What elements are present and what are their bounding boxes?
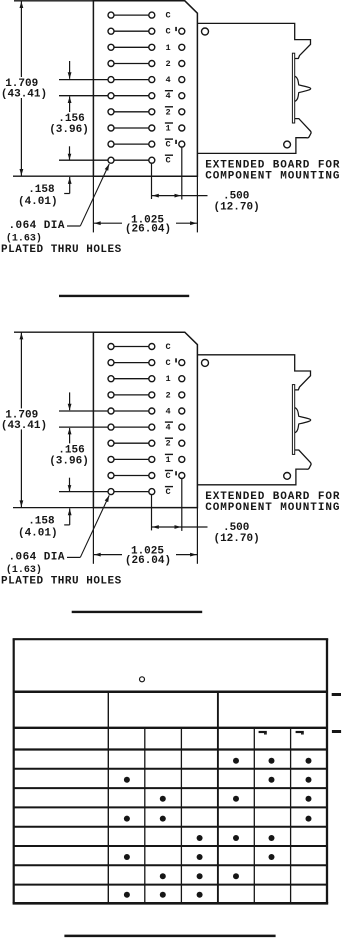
- hole row 2 right D2: [149, 360, 155, 366]
- extension line board right edge below D2: [196, 508, 198, 564]
- table dot row 5 col 4: [197, 835, 203, 841]
- svg-text:(43.41): (43.41): [1, 89, 47, 101]
- table dot row 6 col 2: [124, 854, 130, 860]
- hole row 5 third D1: [179, 77, 185, 83]
- table dot row 2 col 6: [269, 777, 275, 783]
- svg-text:(26.04): (26.04): [125, 555, 171, 567]
- extended board outline D1 (top section): [197, 23, 310, 58]
- hole row 8 left D2: [108, 456, 114, 462]
- table dot row 1 col 6: [269, 758, 275, 764]
- hole row 8 third D2: [179, 456, 185, 462]
- table dot row 8 col 4: [197, 892, 203, 898]
- table dot row 4 col 3: [160, 816, 166, 822]
- svg-text:2: 2: [166, 390, 171, 400]
- wire row 6 D2: [59, 426, 152, 428]
- svg-text:(3.96): (3.96): [49, 455, 89, 467]
- extended board outline D2 (bottom section): [197, 450, 311, 485]
- hole row 9 right D2: [149, 473, 155, 479]
- table row line 3: [14, 806, 327, 808]
- svg-text:(1.63): (1.63): [6, 233, 42, 245]
- hole row 4 left D2: [108, 392, 114, 398]
- card edge bar D2: [292, 385, 294, 455]
- svg-text:(4.01): (4.01): [18, 527, 58, 539]
- table outer border left: [13, 639, 15, 903]
- wire row 2 D2: [111, 362, 152, 364]
- svg-text:4: 4: [166, 423, 171, 433]
- table dot row 8 col 2: [124, 892, 130, 898]
- board outline D1: [93, 1, 197, 176]
- extension line board left edge below D1: [92, 176, 94, 232]
- hole row 7 right D1: [149, 109, 155, 115]
- wire row 9 D1: [111, 143, 152, 145]
- wire row 5 D1: [59, 79, 152, 81]
- table row line 1: [14, 768, 327, 770]
- hole row 6 right D1: [149, 93, 155, 99]
- svg-text:.158: .158: [28, 184, 55, 196]
- svg-text:C: C: [166, 471, 171, 481]
- table outer border bottom: [13, 902, 329, 905]
- wire row 9 D2: [111, 475, 152, 477]
- mounting hole top D2: [202, 359, 209, 366]
- svg-text:2: 2: [166, 439, 171, 449]
- hole row 6 third D2: [179, 424, 185, 430]
- hole row 8 third D1: [179, 125, 185, 131]
- hole row 4 left D1: [108, 61, 114, 67]
- hole row 7 third D1: [179, 109, 185, 115]
- svg-text:1: 1: [166, 374, 171, 384]
- table header row 2 bottom line: [14, 727, 327, 729]
- separator line 3 (bottom): [64, 935, 275, 938]
- hole row 8 right D2: [149, 456, 155, 462]
- extension line bottom edge D1: [13, 175, 93, 177]
- hole row 1 left D2: [108, 344, 114, 350]
- wire row 7 D2: [111, 442, 152, 444]
- middle contact bump D1: [295, 76, 311, 101]
- table dot row 6 col 6: [269, 854, 275, 860]
- dimension text 1.709 (43.41) D1: [3, 77, 40, 98]
- table dot row 6 col 4: [197, 854, 203, 860]
- hole row 2 right D1: [149, 28, 155, 34]
- table row line 2: [14, 787, 327, 789]
- dimension line .500 D1: [152, 195, 208, 197]
- svg-text:1: 1: [166, 124, 171, 134]
- mounting hole bottom D1: [284, 141, 291, 148]
- hole row 9 third D1: [179, 141, 185, 147]
- hole row 10 right D2: [149, 489, 155, 495]
- dimension elbow .158 D1: [69, 177, 71, 194]
- hole row 3 right D2: [149, 376, 155, 382]
- table dot row 5 col 5: [233, 835, 239, 841]
- hole row 7 third D2: [179, 440, 185, 446]
- dimension text 1.709 (43.41) D2: [3, 408, 40, 429]
- extension line third-hole column below D2: [181, 479, 183, 531]
- svg-text:2: 2: [166, 59, 171, 69]
- table dot row 2 col 2: [124, 777, 130, 783]
- hole row 1 right D1: [149, 12, 155, 18]
- svg-text:(12.70): (12.70): [213, 202, 259, 214]
- hole row 2 left D2: [108, 360, 114, 366]
- table row line 6: [14, 864, 327, 866]
- svg-text:2: 2: [166, 107, 171, 117]
- hole row 3 third D2: [179, 376, 185, 382]
- dimension arrows .156 D2: [69, 392, 71, 410]
- table dot row 1 col 7: [306, 758, 312, 764]
- wire row 5 D2: [59, 410, 152, 412]
- table dot row 7 col 3: [160, 873, 166, 879]
- hole row 10 right D1: [149, 157, 155, 163]
- hole row 7 left D2: [108, 440, 114, 446]
- svg-text:COMPONENT MOUNTING: COMPONENT MOUNTING: [205, 502, 340, 514]
- card edge bar D1: [292, 53, 294, 123]
- dimension arrow .158 upper (at row 10) D1: [69, 146, 71, 159]
- dimension arrow .158 upper (at row 10) D2: [69, 478, 71, 491]
- svg-text:C: C: [166, 11, 171, 21]
- wire row 3 D1: [111, 46, 152, 48]
- extension line top edge D2: [14, 331, 93, 333]
- leader line .064 DIA D1: [67, 225, 80, 227]
- hole row 1 left D1: [108, 12, 114, 18]
- table divider column D: [180, 728, 182, 904]
- hole row 9 left D1: [108, 141, 114, 147]
- svg-text:4: 4: [166, 91, 171, 101]
- hole row 2 third D2: [179, 360, 185, 366]
- wire row 8 D2: [111, 458, 152, 460]
- extension line third-hole column below D1: [181, 148, 183, 200]
- dimension arrows .156 D1: [69, 61, 71, 79]
- table row line 7: [14, 884, 327, 886]
- separator line 1: [59, 295, 189, 297]
- svg-text:(1.63): (1.63): [6, 564, 42, 576]
- board outline D2: [93, 332, 197, 507]
- hole row 6 left D2: [108, 424, 114, 430]
- hole row 2 third D1: [179, 28, 185, 34]
- dimension line 1.025 D1: [93, 222, 122, 224]
- wire row 3 D2: [111, 378, 152, 380]
- hole row 10 left D2: [108, 489, 114, 495]
- mounting hole bottom D2: [284, 473, 291, 480]
- hole row 4 third D2: [179, 392, 185, 398]
- negation mark column 7 header: [296, 731, 304, 733]
- separator line 2: [72, 611, 203, 613]
- table divider column B (thick): [217, 692, 219, 904]
- hole row 2 left D1: [108, 28, 114, 34]
- wire row 4 D1: [111, 63, 152, 65]
- hole row 8 left D1: [108, 125, 114, 131]
- table divider column F: [290, 728, 292, 904]
- table dot row 4 col 2: [124, 816, 130, 822]
- hole row 9 left D2: [108, 473, 114, 479]
- table dot row 3 col 3: [160, 796, 166, 802]
- hole row 5 third D2: [179, 408, 185, 414]
- extension line right-hole column below D1: [151, 164, 153, 200]
- dash marker right of table (upper): [332, 693, 341, 696]
- table dot row 7 col 5: [233, 873, 239, 879]
- table divider column A: [107, 692, 109, 904]
- extended board outline D2 (top section): [197, 355, 310, 390]
- table dot row 7 col 4: [197, 873, 203, 879]
- hole row 4 right D1: [149, 61, 155, 67]
- dimension line .500 D2: [152, 526, 208, 528]
- hole row 5 left D1: [108, 77, 114, 83]
- hole row 9 right D1: [149, 141, 155, 147]
- hole row 6 third D1: [179, 93, 185, 99]
- svg-text:.158: .158: [28, 515, 55, 527]
- hole row 1 right D2: [149, 344, 155, 350]
- table dot row 5 col 6: [269, 835, 275, 841]
- hole row 3 left D2: [108, 376, 114, 382]
- wire row 10 D1: [59, 159, 152, 161]
- dimension line 1.709 vertical D1: [20, 1, 22, 176]
- negation mark column 6 header: [259, 731, 267, 733]
- svg-text:PLATED THRU HOLES: PLATED THRU HOLES: [1, 244, 122, 256]
- table dot row 3 col 7: [306, 796, 312, 802]
- wire row 2 D1: [111, 30, 152, 32]
- hole row 4 third D1: [179, 61, 185, 67]
- wire row 7 D1: [111, 111, 152, 113]
- extended board outline D1 (bottom section): [197, 119, 311, 154]
- table header row 1 bottom line: [14, 691, 327, 694]
- svg-text:C: C: [166, 27, 171, 37]
- table dot row 4 col 7: [306, 816, 312, 822]
- hole row 3 left D1: [108, 44, 114, 50]
- svg-text:4: 4: [166, 407, 171, 417]
- svg-text:4: 4: [166, 75, 171, 85]
- hole row 5 right D1: [149, 77, 155, 83]
- extension line right-hole column below D2: [151, 495, 153, 531]
- hole row 8 right D1: [149, 125, 155, 131]
- svg-text:C: C: [166, 487, 171, 497]
- svg-text:(43.41): (43.41): [1, 420, 47, 432]
- table row line 5: [14, 845, 327, 847]
- table dot row 1 col 5: [233, 758, 239, 764]
- table outer border right: [326, 639, 328, 903]
- wire row 4 D2: [111, 394, 152, 396]
- wire row 1 D2: [111, 346, 152, 348]
- table outer border top: [13, 638, 329, 640]
- extension line bottom edge D2: [13, 507, 93, 509]
- hole row 5 right D2: [149, 408, 155, 414]
- svg-text:(12.70): (12.70): [213, 533, 259, 545]
- hole row 4 right D2: [149, 392, 155, 398]
- svg-text:1: 1: [166, 455, 171, 465]
- extension line board left edge below D2: [92, 508, 94, 564]
- svg-text:COMPONENT MOUNTING: COMPONENT MOUNTING: [205, 170, 340, 182]
- hole row 5 left D2: [108, 408, 114, 414]
- table divider column C: [144, 728, 146, 904]
- table row line 4: [14, 826, 327, 828]
- hole row 7 left D1: [108, 109, 114, 115]
- svg-text:PLATED THRU HOLES: PLATED THRU HOLES: [1, 575, 122, 587]
- hole row 7 right D2: [149, 440, 155, 446]
- svg-text:C: C: [166, 342, 171, 352]
- svg-text:.064 DIA: .064 DIA: [9, 551, 65, 563]
- hole row 10 left D1: [108, 157, 114, 163]
- svg-text:(26.04): (26.04): [125, 224, 171, 236]
- dimension elbow .158 D2: [69, 508, 71, 525]
- hole row 6 left D1: [108, 93, 114, 99]
- small circle mark in table header: [140, 677, 145, 682]
- wire row 6 D1: [59, 95, 152, 97]
- table column header bottom line: [14, 748, 327, 750]
- dimension line 1.709 vertical D2: [20, 332, 22, 507]
- leader line .064 DIA D2: [67, 556, 80, 558]
- wire row 1 D1: [111, 14, 152, 16]
- svg-text:C: C: [166, 156, 171, 166]
- hole row 6 right D2: [149, 424, 155, 430]
- mounting hole top D1: [202, 28, 209, 35]
- hole row 3 third D1: [179, 44, 185, 50]
- svg-text:C: C: [166, 140, 171, 150]
- extension line top edge D1: [14, 0, 93, 2]
- table dot row 2 col 7: [306, 777, 312, 783]
- middle contact bump D2: [295, 408, 311, 433]
- svg-text:(4.01): (4.01): [18, 196, 58, 208]
- hole row 9 third D2: [179, 473, 185, 479]
- svg-text:C: C: [166, 358, 171, 368]
- svg-text:(3.96): (3.96): [49, 124, 89, 136]
- table dot row 8 col 3: [160, 892, 166, 898]
- svg-text:1: 1: [166, 43, 171, 53]
- hole row 3 right D1: [149, 44, 155, 50]
- extension line board right edge below D1: [196, 176, 198, 232]
- wire row 10 D2: [59, 491, 152, 493]
- dash marker right of table (lower): [332, 730, 341, 733]
- wire row 8 D1: [111, 127, 152, 129]
- dimension line 1.025 D2: [93, 554, 122, 556]
- table divider column E: [253, 728, 255, 904]
- table dot row 3 col 5: [233, 796, 239, 802]
- svg-text:.064 DIA: .064 DIA: [9, 220, 65, 232]
